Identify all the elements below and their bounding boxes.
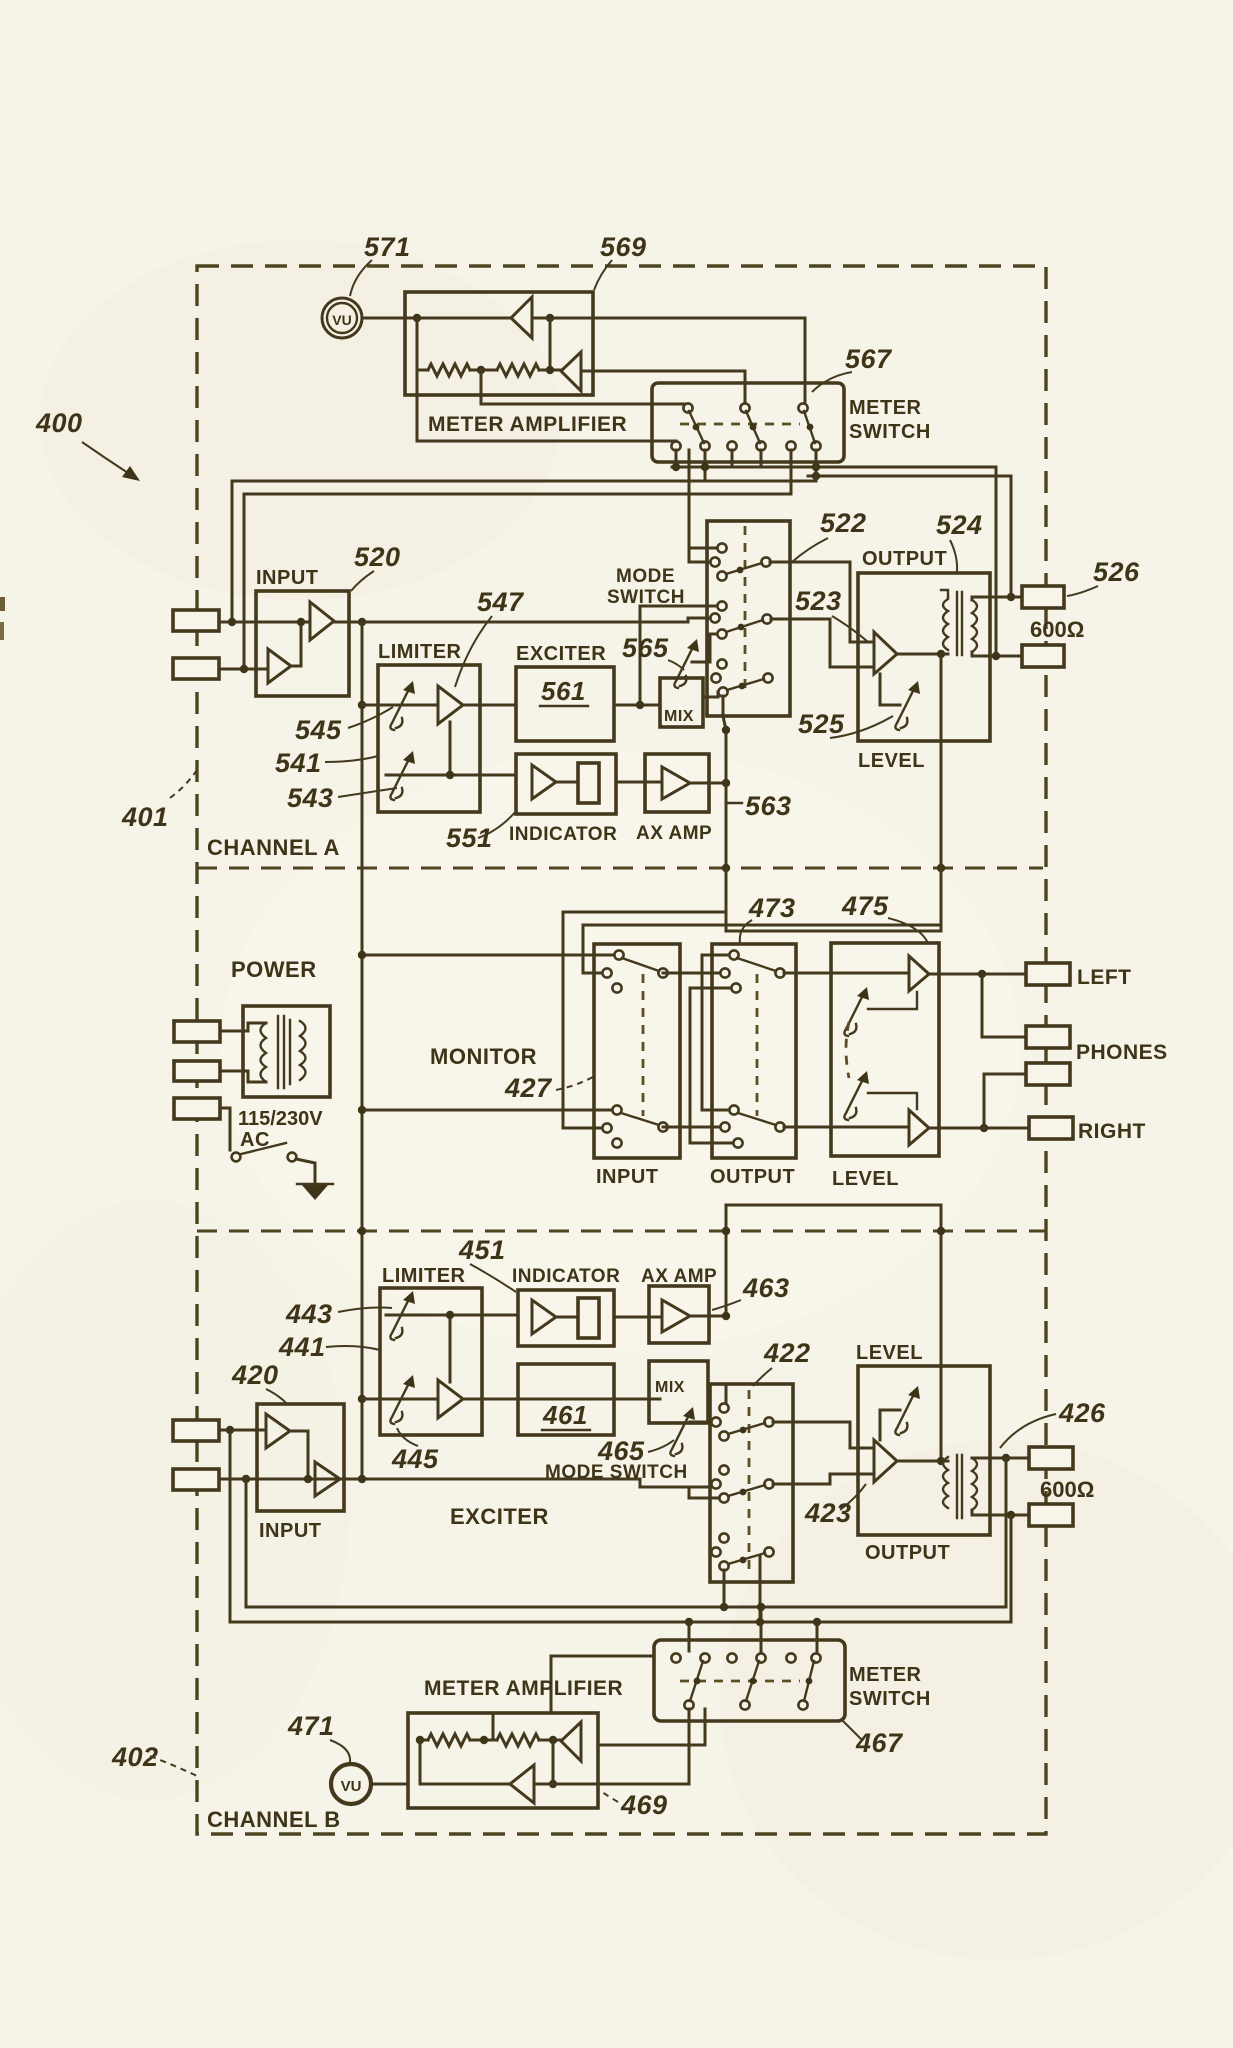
output amp B triangle (points right) bbox=[874, 1440, 897, 1482]
wire amp B to transformer primary bbox=[897, 1460, 948, 1463]
svg-text:563: 563 bbox=[745, 791, 792, 821]
ax amp triangle B bbox=[662, 1300, 690, 1332]
wire meter amp A out1 to meter switch pole3 bbox=[593, 318, 805, 408]
svg-text:541: 541 bbox=[275, 748, 322, 778]
wire junction to phones bottom bbox=[984, 1074, 1026, 1128]
mode B pole1 contacts bbox=[719, 1403, 728, 1412]
wire terminal B1 to input box bbox=[219, 1429, 266, 1432]
leader arrow for 400 bbox=[82, 442, 128, 473]
blade mode A pole1 bbox=[726, 563, 762, 574]
gang dashed line monitor input bbox=[642, 974, 645, 1116]
wire secondary top to 600 ohm terminal top bbox=[972, 597, 1022, 600]
wire terminal1 to transformer primary bbox=[220, 1023, 266, 1031]
transformer B primary coil bbox=[943, 1457, 948, 1508]
wire bus x=941 down to channel B bbox=[940, 1205, 943, 1458]
RIGHT terminal bbox=[1029, 1117, 1073, 1139]
monitor level amp bottom (points right) bbox=[909, 1110, 929, 1145]
mode B pole2 contacts bbox=[719, 1465, 728, 1474]
svg-text:METER AMPLIFIER: METER AMPLIFIER bbox=[428, 413, 627, 436]
blade monitor output bottom bbox=[738, 1113, 776, 1125]
ground symbol bbox=[301, 1184, 329, 1200]
wire bus x=726 below monitor bbox=[726, 1204, 941, 1207]
ax amp box B 463 bbox=[649, 1286, 709, 1343]
svg-text:OUTPUT: OUTPUT bbox=[862, 548, 947, 570]
AC switch blade bbox=[241, 1143, 286, 1154]
monitor LEVEL box bbox=[831, 943, 939, 1156]
svg-text:LEVEL: LEVEL bbox=[856, 1342, 923, 1364]
svg-text:INPUT: INPUT bbox=[596, 1166, 659, 1188]
gang dashed line meter switch B bbox=[680, 1680, 800, 1683]
svg-text:600Ω: 600Ω bbox=[1030, 617, 1084, 642]
wire drops from meter switch A to bus rows bbox=[675, 450, 678, 467]
blade mode B pole1 bbox=[728, 1423, 765, 1434]
input terminal A2 bbox=[173, 658, 219, 679]
potentiometer 543 bbox=[390, 751, 415, 800]
level pot B inside output box bbox=[880, 1410, 900, 1440]
wire input row y=318 inside meter amp A bbox=[417, 317, 512, 320]
wire channel A riser to monitor input bottom bbox=[362, 1109, 617, 1112]
svg-text:INPUT: INPUT bbox=[259, 1520, 322, 1542]
resistor R-a2 bbox=[497, 364, 539, 376]
wire secondary bottom to 600 ohm terminal bottom bbox=[972, 652, 1022, 656]
wire output to level bottom bbox=[784, 1126, 909, 1129]
wire resistor tap down and right to meter switch pole1 bbox=[481, 370, 688, 404]
wire indicator B to ax amp B bbox=[614, 1316, 662, 1319]
monitor OUTPUT box bbox=[712, 944, 796, 1158]
monitor level amp top (points right) bbox=[909, 956, 929, 991]
svg-text:400: 400 bbox=[35, 408, 83, 438]
op-amp triangle B1 (points left) bbox=[510, 1765, 534, 1803]
wire terminal B2 main line bbox=[219, 1478, 640, 1481]
svg-text:SWITCH: SWITCH bbox=[849, 421, 931, 443]
exciter box A 561 bbox=[516, 667, 614, 741]
input amplifier box B 420 bbox=[257, 1404, 344, 1511]
svg-text:MIX: MIX bbox=[655, 1379, 685, 1396]
wire meter amp B top feed bbox=[551, 1656, 654, 1713]
indicator lamp B bbox=[578, 1298, 599, 1338]
power transformer core bbox=[277, 1016, 279, 1088]
limiter amp A triangle bbox=[438, 686, 463, 724]
power terminal 3 bbox=[174, 1098, 220, 1119]
wire meter amp A left leg to meter switch lower contact bbox=[417, 395, 676, 441]
AC switch contact left bbox=[232, 1153, 241, 1162]
vertical legs meter amp B bbox=[419, 1740, 422, 1784]
blade monitor input bottom bbox=[621, 1113, 659, 1125]
PHONES terminal top bbox=[1026, 1026, 1070, 1048]
limiter amp B triangle bbox=[438, 1380, 463, 1418]
VU meter 471 bbox=[331, 1764, 371, 1804]
bus wire y=473 to 600 ohm top terminal bbox=[808, 476, 1011, 598]
svg-text:571: 571 bbox=[364, 232, 411, 262]
wire mode B pole2 out to output amp lower bbox=[773, 1474, 874, 1484]
svg-text:LEVEL: LEVEL bbox=[832, 1168, 899, 1190]
svg-text:467: 467 bbox=[855, 1728, 904, 1758]
svg-text:420: 420 bbox=[231, 1360, 279, 1390]
switch blade pole3 bbox=[804, 411, 815, 443]
op-amp triangle A1 (points left) bbox=[511, 297, 532, 338]
op-amp triangle A2 (points left) bbox=[561, 352, 581, 391]
wire meter switch B to meter amp B lower bbox=[598, 1709, 689, 1784]
potentiometer 445 bbox=[390, 1375, 415, 1424]
wire limiter lower tap bbox=[386, 774, 516, 777]
meter switch B pole2 contacts bbox=[727, 1653, 736, 1662]
wire output to level top bbox=[784, 972, 909, 975]
meter amplifier B box bbox=[408, 1713, 598, 1808]
svg-text:526: 526 bbox=[1093, 557, 1140, 587]
wire input A output line to mode switch bbox=[362, 621, 688, 624]
riser crossing at divider 2 bbox=[358, 1227, 366, 1235]
wire ax amp B out to bus bbox=[690, 1315, 726, 1318]
blade monitor output top bbox=[737, 958, 776, 971]
mode A pole3 contacts bbox=[717, 659, 726, 668]
monitor input bottom contacts bbox=[612, 1105, 621, 1114]
buffer amp B lower (points right) bbox=[315, 1462, 340, 1496]
limiter box A 541 bbox=[378, 665, 480, 812]
svg-text:LIMITER: LIMITER bbox=[378, 641, 462, 663]
mix box B bbox=[649, 1361, 708, 1423]
outer dashed enclosure 400 bbox=[197, 266, 1046, 1834]
long bus wire y=481 from input A riser to meter switch bbox=[232, 450, 816, 481]
svg-text:422: 422 bbox=[763, 1338, 811, 1368]
wire meter amp A out2 to meter switch pole2 bbox=[593, 371, 745, 408]
wire drops from buses to meter switch B bbox=[688, 1622, 691, 1651]
wire limiter A out to exciter bbox=[463, 704, 516, 707]
wire bus into mode B pole1 bbox=[725, 1384, 728, 1404]
wire exciter to mode switch pole2 top bbox=[640, 606, 722, 705]
feed step input line to pole1 mid bbox=[688, 618, 710, 622]
indicator lamp A bbox=[578, 763, 599, 803]
svg-text:547: 547 bbox=[477, 587, 525, 617]
svg-text:600Ω: 600Ω bbox=[1040, 1477, 1094, 1502]
transformer A core bbox=[956, 592, 958, 655]
svg-text:522: 522 bbox=[820, 508, 867, 538]
wire exciter A out bbox=[614, 704, 660, 707]
resistor R-a1 bbox=[428, 364, 470, 376]
svg-text:461: 461 bbox=[542, 1400, 588, 1430]
svg-text:441: 441 bbox=[278, 1332, 326, 1362]
meter switch B pole1 contacts bbox=[671, 1653, 680, 1662]
switch blade pole1 bbox=[689, 411, 704, 443]
svg-text:551: 551 bbox=[446, 823, 493, 853]
wire VU B to meter amp B bbox=[371, 1783, 408, 1786]
wire channel A riser to monitor input top bbox=[362, 954, 619, 957]
svg-text:INDICATOR: INDICATOR bbox=[512, 1266, 620, 1287]
blade B pole1 bbox=[690, 1661, 703, 1701]
dashed gang between level pots bbox=[846, 1022, 849, 1078]
svg-text:423: 423 bbox=[804, 1498, 852, 1528]
meter switch box B 467 bbox=[654, 1640, 845, 1721]
svg-text:VU: VU bbox=[341, 1778, 362, 1795]
svg-text:426: 426 bbox=[1058, 1398, 1106, 1428]
wire vertical A1 to A2 bbox=[549, 318, 552, 370]
svg-text:543: 543 bbox=[287, 783, 334, 813]
svg-text:SWITCH: SWITCH bbox=[607, 587, 685, 608]
resistor row meter amp B bbox=[420, 1739, 428, 1742]
wire terminal3 to AC switch bbox=[220, 1108, 230, 1150]
dashed divider channel A / monitor bbox=[197, 867, 1043, 870]
blade monitor input top bbox=[622, 958, 659, 971]
svg-text:OUTPUT: OUTPUT bbox=[710, 1166, 795, 1188]
wire terminal A2 to input box bbox=[219, 668, 268, 671]
svg-text:INPUT: INPUT bbox=[256, 567, 319, 589]
input terminal A1 bbox=[173, 610, 219, 631]
meter switch A pole 1 contacts bbox=[683, 403, 692, 412]
gang dashed line mode switch B bbox=[748, 1390, 751, 1572]
riser B1 down to bottom bus bbox=[229, 1430, 232, 1622]
power terminal 1 bbox=[174, 1021, 220, 1042]
meter switch 567 box bbox=[652, 383, 844, 462]
wire through input box A bbox=[256, 621, 310, 624]
mode switch box A 522 bbox=[707, 521, 790, 716]
svg-text:471: 471 bbox=[287, 1711, 335, 1741]
mode A pole1 contacts bbox=[717, 543, 726, 552]
monitor output bottom contacts bbox=[729, 1105, 738, 1114]
wire secondary B top to 600 ohm terminal top bbox=[972, 1457, 1029, 1460]
blade B pole2 bbox=[746, 1661, 759, 1701]
svg-text:523: 523 bbox=[795, 586, 842, 616]
wire switch to ground bbox=[296, 1159, 315, 1184]
power transformer secondary coil bbox=[300, 1021, 306, 1080]
svg-text:MODE: MODE bbox=[616, 566, 675, 587]
potentiometer monitor level top bbox=[844, 987, 869, 1036]
VU row meter amp B bbox=[420, 1783, 510, 1786]
junction into limiter A bbox=[358, 701, 366, 709]
mix box A bbox=[660, 678, 703, 727]
indicator box A 551 bbox=[516, 754, 616, 814]
wire A2 base to box edge bbox=[581, 370, 593, 373]
dashed divider monitor / channel B bbox=[197, 1230, 1046, 1233]
svg-text:473: 473 bbox=[748, 893, 796, 923]
resistor R-b1 bbox=[428, 1734, 470, 1746]
wire pot465 to mode B pole1 mid bbox=[690, 1421, 711, 1424]
indicator amp triangle A bbox=[532, 765, 556, 799]
potentiometer 465 below mix B bbox=[670, 1407, 695, 1456]
buffer amp A lower (points right) bbox=[268, 649, 291, 683]
svg-text:LEFT: LEFT bbox=[1077, 966, 1132, 989]
svg-text:545: 545 bbox=[295, 715, 342, 745]
potentiometer 545 bbox=[390, 681, 415, 730]
svg-text:569: 569 bbox=[600, 232, 647, 262]
gang dashed line mode switch A bbox=[744, 526, 747, 690]
blade mode A pole3 bbox=[727, 679, 764, 690]
gang dashed line meter switch A bbox=[680, 423, 800, 426]
svg-text:443: 443 bbox=[285, 1299, 333, 1329]
wire pot565 to pole2 lower contact bbox=[692, 634, 717, 662]
svg-text:451: 451 bbox=[458, 1235, 506, 1265]
svg-text:565: 565 bbox=[622, 633, 669, 663]
feed stubs mode B pole2 bbox=[689, 1487, 719, 1498]
svg-text:MONITOR: MONITOR bbox=[430, 1044, 537, 1069]
power transformer box bbox=[243, 1006, 330, 1097]
bus wire y=465 under meter switch A to output terminals bbox=[672, 467, 996, 656]
potentiometer 443 bbox=[390, 1291, 415, 1340]
svg-text:463: 463 bbox=[742, 1273, 790, 1303]
wire output A bottom drop x=941 bbox=[726, 654, 941, 931]
600 ohm terminal B top bbox=[1029, 1447, 1073, 1469]
PHONES terminal bottom bbox=[1026, 1063, 1070, 1085]
wire terminal2 to transformer primary bbox=[220, 1071, 266, 1082]
transformer B secondary coil bbox=[972, 1458, 977, 1510]
svg-text:445: 445 bbox=[391, 1444, 439, 1474]
wire drop pole1 to mode switch feed bbox=[688, 450, 691, 548]
wire indicator to ax amp A bbox=[616, 781, 662, 784]
bottom bus wire y=1622 bbox=[230, 1621, 1011, 1624]
svg-text:LIMITER: LIMITER bbox=[382, 1265, 466, 1287]
gang dashed line monitor output bbox=[756, 974, 759, 1116]
meter switch A pole 2 contacts bbox=[740, 403, 749, 412]
interconnect loop wires input-output bbox=[663, 972, 725, 975]
svg-text:METER AMPLIFIER: METER AMPLIFIER bbox=[424, 1677, 623, 1700]
transformer A primary coil bbox=[943, 597, 948, 650]
600 ohm terminal A bottom bbox=[1022, 645, 1064, 667]
wrap wire from bus to monitor input (top) bbox=[583, 741, 941, 973]
meter switch A pole 3 contacts bbox=[798, 403, 807, 412]
wrap wire from bus to monitor input (bottom) bbox=[563, 912, 726, 1128]
wire riser into limiter B bbox=[358, 1395, 366, 1403]
power terminal 2 bbox=[174, 1061, 220, 1081]
svg-text:POWER: POWER bbox=[231, 957, 317, 982]
long signal riser x=362 down to monitor and channel B bbox=[361, 622, 364, 1479]
svg-text:CHANNEL A: CHANNEL A bbox=[207, 835, 340, 860]
mode A pole2 contacts bbox=[717, 601, 726, 610]
LEFT terminal bbox=[1026, 963, 1070, 985]
blade mode B pole2 bbox=[728, 1485, 765, 1496]
mode switch box B 422 bbox=[710, 1384, 793, 1582]
wire meter switch B to meter amp B upper bbox=[598, 1709, 705, 1745]
svg-text:115/230V: 115/230V bbox=[238, 1108, 323, 1130]
wire lower buffer to line 1 bbox=[291, 622, 301, 666]
indicator amp triangle B bbox=[532, 1300, 556, 1334]
transformer A secondary coil bbox=[972, 600, 977, 652]
wire mode A pole3 bottom to bus x=726 bbox=[723, 696, 726, 931]
output amp A triangle (points right) bbox=[874, 632, 897, 674]
wire into limiter A bbox=[362, 704, 438, 707]
long bus wire y=494 from input A riser to meter switch bbox=[244, 450, 791, 494]
input amplifier box A 520 bbox=[256, 591, 349, 696]
scan artifact left edge bbox=[0, 597, 5, 611]
input terminal B1 bbox=[173, 1420, 219, 1441]
svg-text:AX AMP: AX AMP bbox=[636, 823, 712, 844]
switch blade pole2 bbox=[746, 411, 760, 443]
mode B pole3 contacts bbox=[719, 1533, 728, 1542]
wire mode A pole1 out to output amp upper bbox=[770, 562, 874, 642]
monitor INPUT box bbox=[594, 944, 680, 1158]
transformer B core bbox=[956, 1455, 958, 1518]
ax amp triangle A bbox=[662, 767, 690, 799]
indicator box B 451 bbox=[518, 1290, 614, 1346]
buffer amp A upper (points right) bbox=[310, 602, 334, 640]
svg-text:EXCITER: EXCITER bbox=[450, 1504, 549, 1529]
wire limiter B upper tap to indicator bbox=[386, 1314, 518, 1317]
level pot 525 inside output A bbox=[880, 674, 900, 705]
svg-text:525: 525 bbox=[798, 709, 845, 739]
wire secondary B bottom to 600 ohm terminal bottom bbox=[972, 1510, 1029, 1515]
wire level top out to LEFT terminal bbox=[929, 973, 1026, 976]
ax amp box A 563 bbox=[645, 754, 709, 812]
wire ax amp A out to bus bbox=[690, 782, 726, 785]
wire limiter B out through exciter to mix bbox=[463, 1398, 660, 1401]
wire B1 base to box edge bbox=[534, 1783, 598, 1786]
wire mode B pole3 drops to bottom buses bbox=[723, 1570, 726, 1607]
limiter box B 441 bbox=[380, 1288, 482, 1435]
wire from A1 base to box edge and junctions bbox=[532, 317, 593, 320]
wire terminal drops to bottom buses bbox=[1005, 1458, 1008, 1607]
exciter box B 461 bbox=[518, 1364, 614, 1435]
svg-text:401: 401 bbox=[121, 802, 169, 832]
600 ohm terminal A top bbox=[1022, 586, 1064, 608]
svg-text:469: 469 bbox=[620, 1790, 668, 1820]
svg-text:475: 475 bbox=[841, 891, 889, 921]
wire level bottom out to RIGHT terminal bbox=[929, 1127, 1029, 1130]
svg-text:LEVEL: LEVEL bbox=[858, 750, 925, 772]
svg-text:SWITCH: SWITCH bbox=[849, 1688, 931, 1710]
svg-text:METER: METER bbox=[849, 397, 922, 419]
riser B2 down to bottom bus bbox=[245, 1479, 248, 1607]
wire mix A out to mode switch pole3 bbox=[703, 692, 722, 697]
wire upper buffer B to line2 bbox=[290, 1431, 308, 1479]
svg-text:CHANNEL B: CHANNEL B bbox=[207, 1807, 341, 1832]
op-amp triangle B2 (points left) bbox=[561, 1722, 581, 1761]
blade mode A pole2 bbox=[726, 620, 763, 632]
meter switch B pole3 contacts bbox=[786, 1653, 795, 1662]
bottom bus wire y=1607 bbox=[246, 1606, 1006, 1609]
svg-text:520: 520 bbox=[354, 542, 401, 572]
riser wire x=244 to input terminal row 2 bbox=[243, 494, 246, 669]
potentiometer monitor level bottom bbox=[844, 1071, 869, 1120]
monitor output top contacts bbox=[729, 950, 738, 959]
resistor row y=370 meter amp A bbox=[416, 318, 419, 395]
riser wire x=232 to input terminal row 1 bbox=[231, 481, 234, 622]
svg-text:INDICATOR: INDICATOR bbox=[509, 824, 617, 845]
buffer amp B upper (points right) bbox=[266, 1414, 290, 1448]
meter amplifier A box bbox=[405, 292, 593, 395]
svg-text:561: 561 bbox=[541, 676, 586, 706]
svg-text:METER: METER bbox=[849, 1664, 922, 1686]
wire terminal A1 to input box bbox=[219, 621, 256, 624]
AC switch contact right bbox=[288, 1153, 297, 1162]
VU meter 571 bbox=[322, 298, 362, 338]
svg-text:427: 427 bbox=[504, 1073, 553, 1103]
600 ohm terminal B bottom bbox=[1029, 1504, 1073, 1526]
wire VU to meter amplifier A bbox=[362, 317, 417, 320]
svg-text:AX AMP: AX AMP bbox=[641, 1266, 717, 1287]
wire mode A pole2 out to output amp lower bbox=[771, 619, 874, 667]
input terminal B2 bbox=[173, 1469, 219, 1490]
blade B pole3 bbox=[804, 1661, 814, 1701]
svg-text:MIX: MIX bbox=[664, 708, 694, 725]
monitor input top contacts bbox=[614, 950, 623, 959]
svg-text:EXCITER: EXCITER bbox=[516, 643, 606, 665]
resistor R-b2 bbox=[497, 1734, 539, 1746]
output box B 426 level/output bbox=[858, 1366, 990, 1535]
wire main line step to mode switch B bbox=[640, 1479, 689, 1487]
feed from box top to resistor tap bbox=[492, 1713, 495, 1740]
wire mode B pole1 out to output amp upper bbox=[773, 1422, 874, 1448]
svg-text:RIGHT: RIGHT bbox=[1078, 1120, 1146, 1143]
svg-text:567: 567 bbox=[845, 344, 893, 374]
paper tone variation bbox=[40, 240, 560, 600]
svg-text:PHONES: PHONES bbox=[1076, 1041, 1168, 1064]
mode switch A feed stubs pole1 bbox=[689, 548, 717, 562]
svg-text:VU: VU bbox=[332, 312, 351, 328]
wire junction to phones top bbox=[982, 974, 1026, 1037]
power transformer primary coil bbox=[261, 1023, 267, 1082]
wire amp to transformer primary bbox=[897, 653, 948, 656]
svg-text:OUTPUT: OUTPUT bbox=[865, 1542, 950, 1564]
blade mode B pole3 bbox=[728, 1553, 765, 1564]
potentiometer 565 above mix bbox=[674, 639, 699, 688]
output box A 524 bbox=[858, 573, 990, 741]
